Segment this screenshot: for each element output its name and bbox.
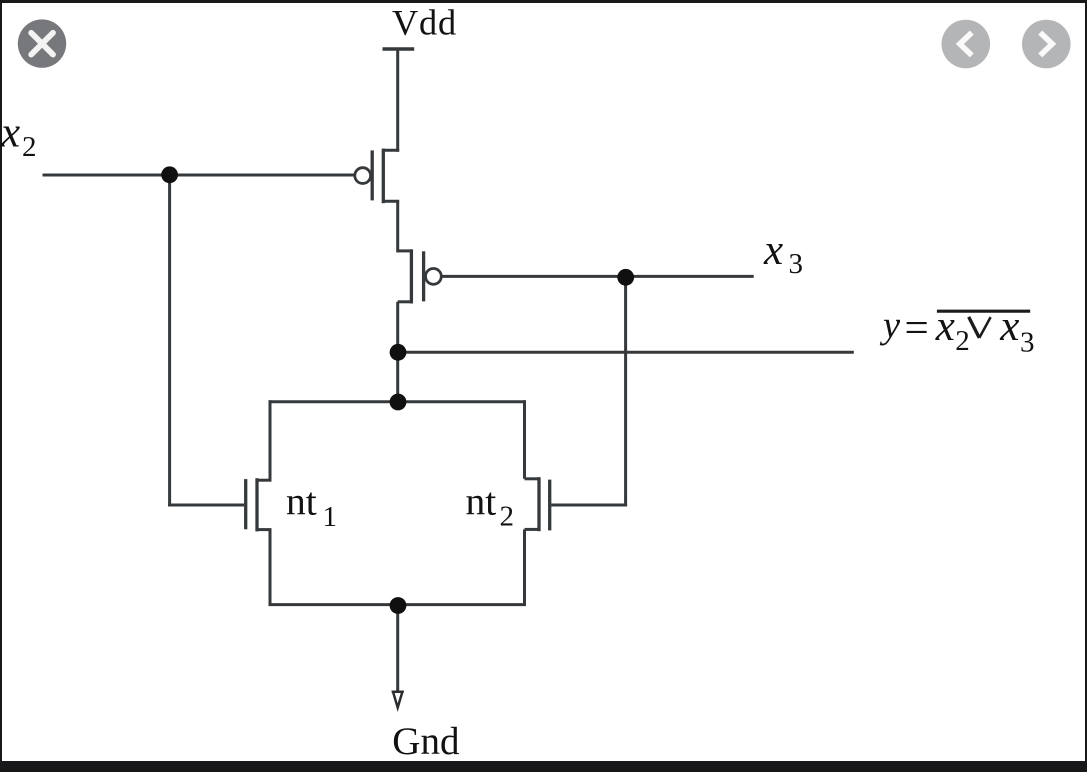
label y = x2 or x3 — [879, 303, 1035, 358]
ground arrowhead — [392, 692, 404, 708]
svg-text:=: = — [905, 305, 929, 352]
svg-text:y: y — [879, 305, 901, 347]
close button — [18, 19, 66, 67]
wire pt2 to node y — [396, 302, 399, 403]
prev button — [942, 20, 991, 69]
junction dot pair bottom — [390, 597, 407, 614]
junction dot node y — [390, 344, 407, 361]
wire to ground — [396, 605, 399, 692]
svg-text:2: 2 — [955, 325, 970, 357]
junction dot x3 branch — [617, 269, 634, 286]
wire x2 input — [43, 174, 355, 177]
wire x3 branch down — [624, 277, 627, 506]
svg-text:2: 2 — [500, 501, 515, 533]
wire x3 input — [441, 275, 753, 278]
svg-text:nt: nt — [466, 479, 497, 523]
svg-text:3: 3 — [1020, 326, 1035, 358]
junction dot x2 branch — [161, 166, 178, 183]
svg-text:2: 2 — [22, 131, 37, 163]
Vdd power rail — [383, 47, 415, 50]
overline — [937, 310, 1030, 313]
wire x2 branch down — [168, 175, 171, 507]
nmos nt1 — [246, 478, 272, 531]
junction dot pair top — [390, 394, 407, 411]
pmos pt1 — [355, 149, 399, 204]
nmos nt2 — [525, 477, 550, 531]
svg-text:1: 1 — [323, 501, 338, 533]
svg-text:x: x — [0, 109, 20, 156]
pmos pt2 — [398, 249, 442, 303]
wire nt2 gate to x3 branch — [551, 504, 627, 507]
svg-text:Gnd: Gnd — [392, 720, 460, 763]
wire x2 branch to nt1 gate — [168, 504, 244, 507]
svg-text:nt: nt — [286, 479, 317, 523]
label x2 — [0, 109, 37, 163]
wire node y output — [398, 351, 854, 354]
label nt1 — [286, 479, 337, 533]
parallel pair frame — [269, 400, 527, 606]
svg-text:Vdd: Vdd — [392, 3, 457, 43]
vee operator — [969, 317, 980, 338]
label x3 — [763, 227, 803, 280]
wire pt1 to pt2 — [396, 201, 399, 252]
label nt2 — [466, 479, 515, 532]
svg-text:3: 3 — [789, 248, 804, 280]
next button — [1022, 20, 1071, 69]
svg-text:x: x — [763, 227, 783, 274]
wire Vdd to pt1 drain — [396, 49, 399, 152]
